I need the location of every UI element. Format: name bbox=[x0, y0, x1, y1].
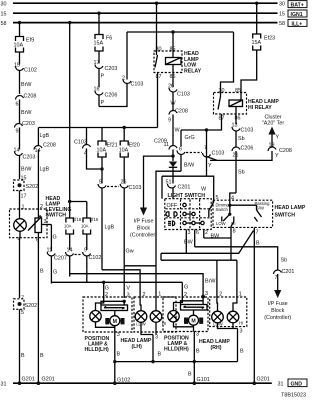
svg-text:C208: C208 bbox=[279, 148, 292, 154]
svg-text:2: 2 bbox=[40, 204, 43, 210]
svg-text:ILL+: ILL+ bbox=[292, 21, 303, 27]
svg-text:Ef18: Ef18 bbox=[73, 217, 82, 222]
bus 31 ground bbox=[1, 382, 284, 388]
wire: pin2 BW over to hi/low rail bbox=[204, 237, 231, 239]
wire: zigzag to beam rail bbox=[160, 253, 162, 260]
wire: beam rail y260.5 bbox=[161, 260, 242, 311]
net label GND bbox=[288, 379, 307, 387]
connector C206 pin 16 bbox=[94, 87, 118, 107]
svg-text:S202: S202 bbox=[26, 184, 39, 190]
dimmer low contact from pin 5 bbox=[209, 200, 214, 217]
svg-text:15: 15 bbox=[21, 176, 27, 182]
wire: branch to I/P fuse block controller bbox=[144, 156, 174, 207]
svg-text:15A: 15A bbox=[252, 40, 262, 46]
head lamp RH box bbox=[199, 297, 247, 351]
svg-text:(Controller): (Controller) bbox=[264, 315, 291, 321]
svg-text:LgB: LgB bbox=[105, 225, 115, 231]
head lamp RH low bulb bbox=[212, 311, 224, 326]
light switch pin 6 bbox=[195, 230, 199, 247]
cluster A20 terminal arrow bbox=[262, 115, 285, 135]
fuse Ef20 10A bbox=[119, 128, 140, 184]
svg-text:C201: C201 bbox=[282, 269, 295, 275]
wire: Ef23 to hi relay pin 85 bbox=[241, 50, 257, 100]
svg-text:LgB: LgB bbox=[40, 133, 50, 139]
fuse Ef21 10A bbox=[97, 128, 118, 184]
svg-text:10A: 10A bbox=[119, 148, 129, 154]
wire: to C103 pin 2 bbox=[99, 83, 127, 107]
light switch headlamp row bbox=[168, 221, 204, 226]
svg-text:G201: G201 bbox=[42, 377, 55, 383]
svg-text:16: 16 bbox=[94, 87, 100, 93]
svg-text:B/W: B/W bbox=[184, 163, 195, 169]
head lamp switch pin 7 bbox=[254, 227, 260, 383]
connector C103 pin 6 bbox=[177, 130, 195, 171]
light switch parking row bbox=[166, 212, 195, 216]
svg-text:14: 14 bbox=[35, 148, 41, 154]
wire label B/W bbox=[156, 163, 195, 299]
wire: Sb jog to head lamp switch pin 4 bbox=[230, 193, 236, 205]
svg-text:LgB: LgB bbox=[40, 167, 50, 173]
svg-text:11: 11 bbox=[164, 142, 170, 148]
wire: col C from bus58 bbox=[68, 21, 87, 218]
svg-text:Y: Y bbox=[276, 135, 280, 141]
svg-text:8: 8 bbox=[233, 229, 236, 235]
svg-text:HI: HI bbox=[239, 321, 243, 326]
svg-text:BAT+: BAT+ bbox=[291, 3, 304, 9]
wire: relay low pin 87 down bbox=[157, 73, 159, 128]
svg-text:C102: C102 bbox=[24, 68, 37, 74]
leveling switch lamp bbox=[14, 209, 27, 238]
ground G201 right bbox=[253, 377, 270, 386]
connector C103 pin 5 bbox=[98, 180, 106, 270]
svg-text:BrW: BrW bbox=[21, 110, 32, 116]
svg-text:30: 30 bbox=[1, 2, 7, 8]
svg-text:HI RELAY: HI RELAY bbox=[248, 105, 272, 111]
svg-text:Switch: Switch bbox=[216, 207, 229, 212]
svg-text:B: B bbox=[256, 241, 260, 247]
svg-text:HLLD(RH): HLLD(RH) bbox=[164, 347, 189, 353]
connector C208 pin 9 bbox=[168, 109, 188, 146]
wire: V continuation into LH position lamp pin 3 bbox=[124, 266, 130, 299]
wire: LgB drop into LH position lamp pin 2 bbox=[104, 282, 109, 298]
head lamp LH hi bulb bbox=[150, 298, 166, 332]
wire: coil rail to hi relay pin 30 bbox=[221, 32, 234, 97]
svg-text:17: 17 bbox=[94, 60, 100, 66]
leveling switch rheostat bbox=[28, 209, 51, 238]
arrow to I/P fuse block bbox=[130, 208, 157, 239]
svg-text:17: 17 bbox=[21, 194, 27, 200]
relay low title bbox=[184, 51, 202, 74]
svg-text:Gw: Gw bbox=[126, 249, 134, 255]
fuse Ef23 15A bbox=[252, 2, 276, 51]
head lamp switch box bbox=[213, 200, 306, 227]
light switch S1 bbox=[165, 193, 211, 230]
svg-text:I/P Fuse: I/P Fuse bbox=[268, 301, 288, 307]
bus 15 bbox=[1, 12, 286, 18]
svg-text:M: M bbox=[191, 319, 195, 325]
svg-text:BrW: BrW bbox=[21, 82, 32, 88]
svg-text:C203: C203 bbox=[23, 155, 36, 161]
wire: col D ignition feed bbox=[97, 12, 100, 35]
svg-text:3: 3 bbox=[205, 291, 208, 297]
svg-text:G: G bbox=[53, 270, 57, 276]
svg-text:Ef21: Ef21 bbox=[107, 143, 118, 149]
svg-text:C208: C208 bbox=[24, 94, 37, 100]
wire: branch LgB from header bbox=[38, 128, 49, 147]
light switch OFF row bbox=[167, 203, 187, 209]
svg-text:G: G bbox=[53, 235, 57, 241]
bus 30 bbox=[1, 2, 286, 8]
connector C102 pin 9 bbox=[75, 248, 102, 270]
head lamp leveling switch box bbox=[10, 196, 72, 238]
svg-text:B: B bbox=[21, 353, 25, 359]
svg-text:7: 7 bbox=[256, 230, 259, 236]
net label ILL+ bbox=[288, 19, 307, 27]
connector C208 pin 14 bbox=[34, 143, 56, 210]
svg-text:3: 3 bbox=[188, 230, 191, 236]
wire: C102-14 BrW to RH position pin 3 bbox=[70, 274, 217, 297]
svg-text:S202: S202 bbox=[25, 303, 38, 309]
svg-text:9: 9 bbox=[168, 118, 171, 124]
svg-text:(RH): (RH) bbox=[211, 345, 222, 351]
svg-text:C207: C207 bbox=[54, 256, 67, 262]
wire: relay coil feed rail bbox=[127, 30, 234, 33]
net label IGN1 bbox=[288, 10, 307, 18]
fuse Ef19 10A bbox=[81, 217, 99, 250]
head lamp low relay U1 bbox=[154, 47, 182, 81]
HLLD motor RH bbox=[181, 295, 208, 332]
connector C103 pin 7 bbox=[186, 145, 224, 160]
svg-text:2: 2 bbox=[205, 230, 208, 236]
svg-text:OFF: OFF bbox=[167, 203, 178, 209]
wire: low beam feed rail y128 bbox=[38, 126, 157, 129]
svg-text:LIGHT SWITCH: LIGHT SWITCH bbox=[168, 193, 206, 199]
svg-text:31: 31 bbox=[1, 382, 7, 388]
svg-text:15: 15 bbox=[14, 63, 20, 69]
wire: coil rail to relay low pin 85 bbox=[172, 32, 174, 58]
connector C201 pin 7 bbox=[274, 269, 295, 291]
wire: relay low pin 86 down bbox=[172, 73, 174, 88]
dimmer switch bbox=[216, 203, 236, 227]
net label BAT+ bbox=[288, 1, 307, 9]
RH position ground pin 3 bbox=[188, 332, 210, 386]
svg-text:10A: 10A bbox=[14, 43, 24, 49]
connector C206 pin 21 bbox=[232, 146, 253, 194]
connector C208 pin 6 bbox=[16, 94, 37, 124]
ground rail bottom bbox=[115, 361, 238, 363]
dimmer hi contact to pin 8 bbox=[231, 222, 236, 261]
passing switch bbox=[230, 201, 270, 222]
svg-text:G: G bbox=[105, 286, 109, 292]
diode D1 bbox=[169, 162, 177, 184]
connector C203 pin 17 bbox=[94, 60, 118, 88]
connector C201 pin 51 bbox=[166, 180, 191, 199]
wire: col A from bus58 bbox=[18, 21, 21, 37]
svg-text:C203: C203 bbox=[105, 66, 118, 72]
svg-text:M: M bbox=[113, 319, 117, 325]
wire: Y line to cluster bbox=[208, 151, 279, 169]
svg-text:C103: C103 bbox=[241, 128, 254, 134]
svg-text:GrG: GrG bbox=[185, 135, 195, 141]
svg-text:C201: C201 bbox=[178, 185, 191, 191]
ground G201 left bbox=[18, 377, 35, 386]
svg-text:Ef9: Ef9 bbox=[26, 38, 34, 44]
svg-text:RELAY: RELAY bbox=[184, 68, 202, 74]
svg-text:Sb: Sb bbox=[281, 258, 288, 264]
svg-text:10A: 10A bbox=[97, 148, 107, 154]
svg-text:15: 15 bbox=[279, 12, 285, 18]
wire: pin6 to C201 pin 7 bbox=[195, 247, 278, 270]
fuse Ef18 10A bbox=[64, 217, 82, 250]
svg-text:3: 3 bbox=[127, 293, 130, 299]
svg-text:10A: 10A bbox=[81, 224, 89, 229]
svg-text:C206: C206 bbox=[241, 146, 254, 152]
svg-text:B: B bbox=[196, 349, 200, 355]
svg-text:26: 26 bbox=[121, 180, 127, 186]
svg-text:C206: C206 bbox=[105, 93, 118, 99]
svg-text:1: 1 bbox=[22, 205, 25, 211]
wire: bus30 to relay low pin 30 bbox=[155, 2, 158, 56]
wire: hi relay pin 86 down bbox=[235, 114, 237, 125]
svg-text:Sb: Sb bbox=[238, 170, 245, 176]
svg-text:Ef20: Ef20 bbox=[129, 143, 140, 149]
svg-text:C103: C103 bbox=[129, 185, 142, 191]
svg-text:F6: F6 bbox=[106, 36, 112, 42]
svg-text:G201: G201 bbox=[22, 377, 35, 383]
svg-text:P: P bbox=[101, 74, 105, 80]
connector C207 pin 11 bbox=[47, 248, 67, 284]
svg-text:BrW: BrW bbox=[21, 167, 32, 173]
svg-text:B: B bbox=[117, 352, 121, 358]
connector C209 pin 11 bbox=[154, 139, 177, 162]
LH position ground pin 3 bbox=[113, 332, 130, 385]
svg-text:14: 14 bbox=[67, 248, 73, 254]
position lamp & HLLD RH box bbox=[163, 297, 208, 353]
splice S202 pins 15/17 bbox=[14, 176, 39, 210]
fuse Ef6 15A bbox=[94, 35, 113, 64]
svg-text:G201: G201 bbox=[257, 377, 270, 383]
wire: rail drop to C103 pin 4 bbox=[86, 128, 88, 146]
wire: hi relay pin 87 down-left to C103 pin 7 bbox=[181, 114, 222, 176]
wire: C102-9 down to G rail bbox=[86, 270, 88, 282]
head lamp LH low bulb bbox=[135, 298, 147, 332]
svg-text:Sb: Sb bbox=[238, 136, 245, 142]
svg-text:C203: C203 bbox=[22, 121, 35, 127]
svg-text:C103: C103 bbox=[131, 82, 144, 88]
svg-text:SWITCH: SWITCH bbox=[46, 213, 67, 219]
LH head ground bbox=[141, 332, 162, 363]
svg-text:B: B bbox=[240, 349, 244, 355]
svg-text:LOW: LOW bbox=[216, 221, 226, 226]
svg-text:P: P bbox=[101, 100, 105, 106]
svg-text:5: 5 bbox=[21, 310, 24, 316]
connector C208 pin 19 bbox=[268, 134, 292, 154]
arrow to I/P fuse block controller right bbox=[264, 290, 291, 321]
svg-text:87: 87 bbox=[156, 74, 162, 80]
svg-text:15: 15 bbox=[1, 12, 7, 18]
svg-text:(Controller): (Controller) bbox=[130, 233, 157, 239]
HLLD motor LH bbox=[101, 300, 128, 332]
svg-text:6: 6 bbox=[179, 147, 182, 153]
svg-text:S/W: S/W bbox=[256, 206, 264, 211]
connector C102 pin 14 bbox=[66, 248, 74, 277]
svg-text:BrW: BrW bbox=[205, 279, 216, 285]
wire: pin3 BW to passing switch bbox=[161, 231, 254, 254]
light switch pin 3 bbox=[184, 230, 194, 254]
svg-text:G102: G102 bbox=[117, 378, 130, 384]
position lamp RH bbox=[168, 297, 194, 327]
svg-text:10A: 10A bbox=[64, 224, 72, 229]
connector C203 pin 9 bbox=[15, 121, 35, 150]
svg-text:V: V bbox=[126, 285, 130, 291]
svg-text:C103: C103 bbox=[212, 151, 225, 157]
wire: pot wiper G to C207 bbox=[51, 225, 56, 252]
connector C103 pin 26 bbox=[107, 180, 141, 266]
svg-text:C103: C103 bbox=[177, 92, 190, 98]
svg-text:C208: C208 bbox=[43, 143, 56, 149]
svg-text:7: 7 bbox=[275, 275, 278, 281]
wire: W feed to light switch pin 5 bbox=[162, 176, 219, 201]
wire: LgB over to LH head lamp low pin 2 bbox=[102, 270, 146, 298]
connector C103 pin 13 bbox=[232, 123, 254, 148]
svg-text:85: 85 bbox=[235, 88, 241, 94]
svg-text:"A20" Ter: "A20" Ter bbox=[262, 121, 285, 127]
svg-text:G101: G101 bbox=[197, 377, 210, 383]
svg-text:3: 3 bbox=[155, 335, 158, 341]
svg-text:3: 3 bbox=[240, 329, 243, 335]
leveling switch pin 6 bbox=[36, 238, 39, 384]
connector C103 pin 2 bbox=[122, 32, 143, 88]
ground G201 second bbox=[37, 377, 55, 386]
connector C103 pin 4 bbox=[74, 140, 102, 170]
svg-text:B: B bbox=[40, 269, 44, 275]
svg-text:SWITCH: SWITCH bbox=[275, 213, 296, 219]
connector C103 pin 25 bbox=[168, 84, 190, 111]
svg-text:Y: Y bbox=[208, 163, 212, 169]
relay hi title bbox=[248, 99, 279, 111]
svg-text:6: 6 bbox=[16, 102, 19, 108]
svg-text:2: 2 bbox=[184, 292, 187, 298]
svg-text:B: B bbox=[40, 353, 44, 359]
svg-text:5: 5 bbox=[99, 180, 102, 186]
RH head ground pin 3 bbox=[218, 327, 245, 362]
svg-text:6: 6 bbox=[196, 230, 199, 236]
svg-text:58: 58 bbox=[279, 21, 285, 27]
splice S202 pins 7/5 lower bbox=[14, 296, 38, 384]
svg-text:30: 30 bbox=[219, 88, 225, 94]
svg-text:BW: BW bbox=[184, 240, 194, 246]
wire: G horizontal to lamp pins bbox=[51, 281, 182, 284]
wire: Gw branch joining B/W wire bbox=[124, 266, 161, 298]
svg-text:15A: 15A bbox=[94, 41, 104, 47]
position lamp LH bbox=[90, 297, 115, 327]
svg-text:B: B bbox=[158, 352, 162, 358]
svg-text:HEAD LAMP: HEAD LAMP bbox=[275, 205, 306, 211]
RH position feed G pin 2 bbox=[182, 282, 188, 298]
svg-text:58: 58 bbox=[1, 21, 7, 27]
svg-text:9: 9 bbox=[84, 248, 87, 254]
svg-text:Ef23: Ef23 bbox=[264, 36, 275, 42]
svg-text:9: 9 bbox=[16, 129, 19, 135]
bus 58 bbox=[1, 21, 286, 27]
svg-text:G: G bbox=[184, 285, 188, 291]
svg-text:51: 51 bbox=[166, 180, 172, 186]
svg-text:C208: C208 bbox=[175, 109, 188, 115]
svg-text:30: 30 bbox=[279, 2, 285, 8]
head lamp LH box bbox=[121, 297, 177, 350]
svg-text:Ef19: Ef19 bbox=[90, 217, 99, 222]
svg-text:HLLD(LH): HLLD(LH) bbox=[85, 347, 109, 353]
head lamp RH hi bulb bbox=[227, 311, 243, 326]
svg-text:GND: GND bbox=[291, 381, 303, 387]
svg-text:Block: Block bbox=[137, 226, 150, 232]
svg-text:IGN1: IGN1 bbox=[291, 12, 303, 18]
head lamp hi relay U2 bbox=[214, 88, 247, 122]
svg-text:I/P Fuse: I/P Fuse bbox=[134, 219, 154, 225]
connector C203 pin 14 bbox=[14, 148, 36, 180]
svg-text:7: 7 bbox=[204, 145, 207, 151]
connector C102 pin 15 bbox=[14, 63, 37, 95]
light switch pin 2 bbox=[204, 230, 220, 240]
svg-text:(LH): (LH) bbox=[132, 344, 143, 350]
svg-text:31: 31 bbox=[278, 382, 284, 388]
svg-text:B: B bbox=[188, 372, 192, 378]
svg-text:3: 3 bbox=[117, 332, 120, 338]
svg-text:3: 3 bbox=[196, 332, 199, 338]
svg-text:T8B15023: T8B15023 bbox=[281, 393, 306, 399]
position lamp & HLLD LH box bbox=[83, 297, 132, 353]
leveling switch pin 4 bbox=[18, 237, 21, 299]
svg-text:Block: Block bbox=[271, 308, 284, 314]
fuse Ef9 10A bbox=[14, 37, 35, 65]
svg-text:C102: C102 bbox=[89, 255, 102, 261]
